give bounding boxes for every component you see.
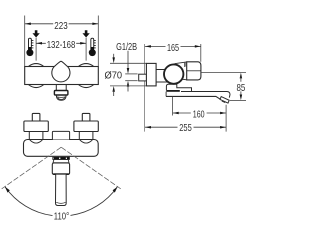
- svg-text:Ø70: Ø70: [105, 70, 123, 81]
- svg-text:G1/2B: G1/2B: [116, 42, 137, 53]
- spout tube: [181, 92, 230, 98]
- extension line right (spout tip): [225, 105, 227, 132]
- label 223: [53, 20, 68, 29]
- svg-text:223: 223: [54, 21, 68, 32]
- handle cap (side): [187, 62, 201, 80]
- swivel range dashed line right: [61, 147, 120, 189]
- G1/2B leader line down: [127, 51, 129, 70]
- 85 extension line bottom: [230, 100, 246, 102]
- dimension line 165: [145, 45, 201, 47]
- thermometer left (hot): [26, 38, 33, 56]
- bottom slope line: [182, 78, 187, 81]
- aerator arcs (front): [56, 95, 66, 100]
- union cap arc left bottom: [29, 85, 44, 88]
- extension line right of 132-168: [85, 38, 87, 61]
- center bump: [52, 131, 69, 139]
- 85 dimension: [240, 73, 243, 79]
- union nut right: [74, 121, 98, 132]
- outlet nut (front): [54, 91, 68, 96]
- dimension line 255: [145, 126, 226, 128]
- knob with pointed top (front): [52, 61, 70, 82]
- spout base: [165, 92, 167, 97]
- 85 extension line top: [201, 71, 246, 73]
- spout collar ring: [53, 160, 69, 163]
- body (plan): [24, 140, 99, 157]
- neck right: [79, 132, 93, 140]
- union cap arc left top: [29, 64, 44, 67]
- union cap arc right top: [79, 64, 94, 67]
- spout block: [52, 163, 69, 175]
- swivel range dashed line left: [2, 147, 62, 189]
- extension line left of 223: [24, 16, 26, 67]
- neck left: [29, 132, 43, 140]
- extension line left of 132-168: [35, 38, 37, 61]
- wall stub: [139, 74, 147, 81]
- G1/2 extension lines: [125, 73, 137, 75]
- inlet square right: [82, 113, 90, 121]
- svg-text:255: 255: [179, 123, 192, 134]
- O70 arrows: [113, 54, 115, 59]
- extension line right of 165: [200, 44, 202, 62]
- svg-text:132-168: 132-168: [47, 40, 76, 51]
- svg-text:110°: 110°: [54, 212, 69, 223]
- cold inlet down arrow: [82, 30, 89, 37]
- label 132-168: [46, 39, 76, 48]
- svg-text:165: 165: [167, 43, 179, 54]
- groove ticks: [185, 63, 186, 67]
- dimension line 132-168: [36, 42, 86, 44]
- hot inlet down arrow: [32, 30, 39, 37]
- label 165: [166, 42, 181, 50]
- dimension line 223: [25, 23, 99, 25]
- spout collar: [166, 84, 191, 91]
- union cap arc right bottom: [79, 85, 94, 88]
- spout tube (plan): [56, 175, 67, 206]
- spout knurl ring: [53, 157, 70, 159]
- dimension line 160: [173, 112, 226, 114]
- O70 extension lines: [110, 62, 146, 64]
- union nut left: [24, 121, 48, 132]
- knob circle (side): [164, 64, 183, 83]
- body tube (side): [156, 70, 167, 83]
- top slope line: [175, 62, 187, 64]
- swivel arc: [5, 187, 53, 216]
- outlet neck (front): [56, 85, 66, 91]
- inlet square left: [32, 113, 40, 121]
- faucet body (front): [25, 67, 99, 85]
- extension line right of 223: [97, 16, 99, 67]
- escutcheon flange: [146, 63, 156, 86]
- thermometer right (cold): [89, 38, 96, 56]
- wall line: [144, 44, 146, 132]
- aerator tip: [220, 97, 229, 104]
- svg-text:160: 160: [193, 109, 205, 120]
- 160 extension line left: [172, 97, 174, 116]
